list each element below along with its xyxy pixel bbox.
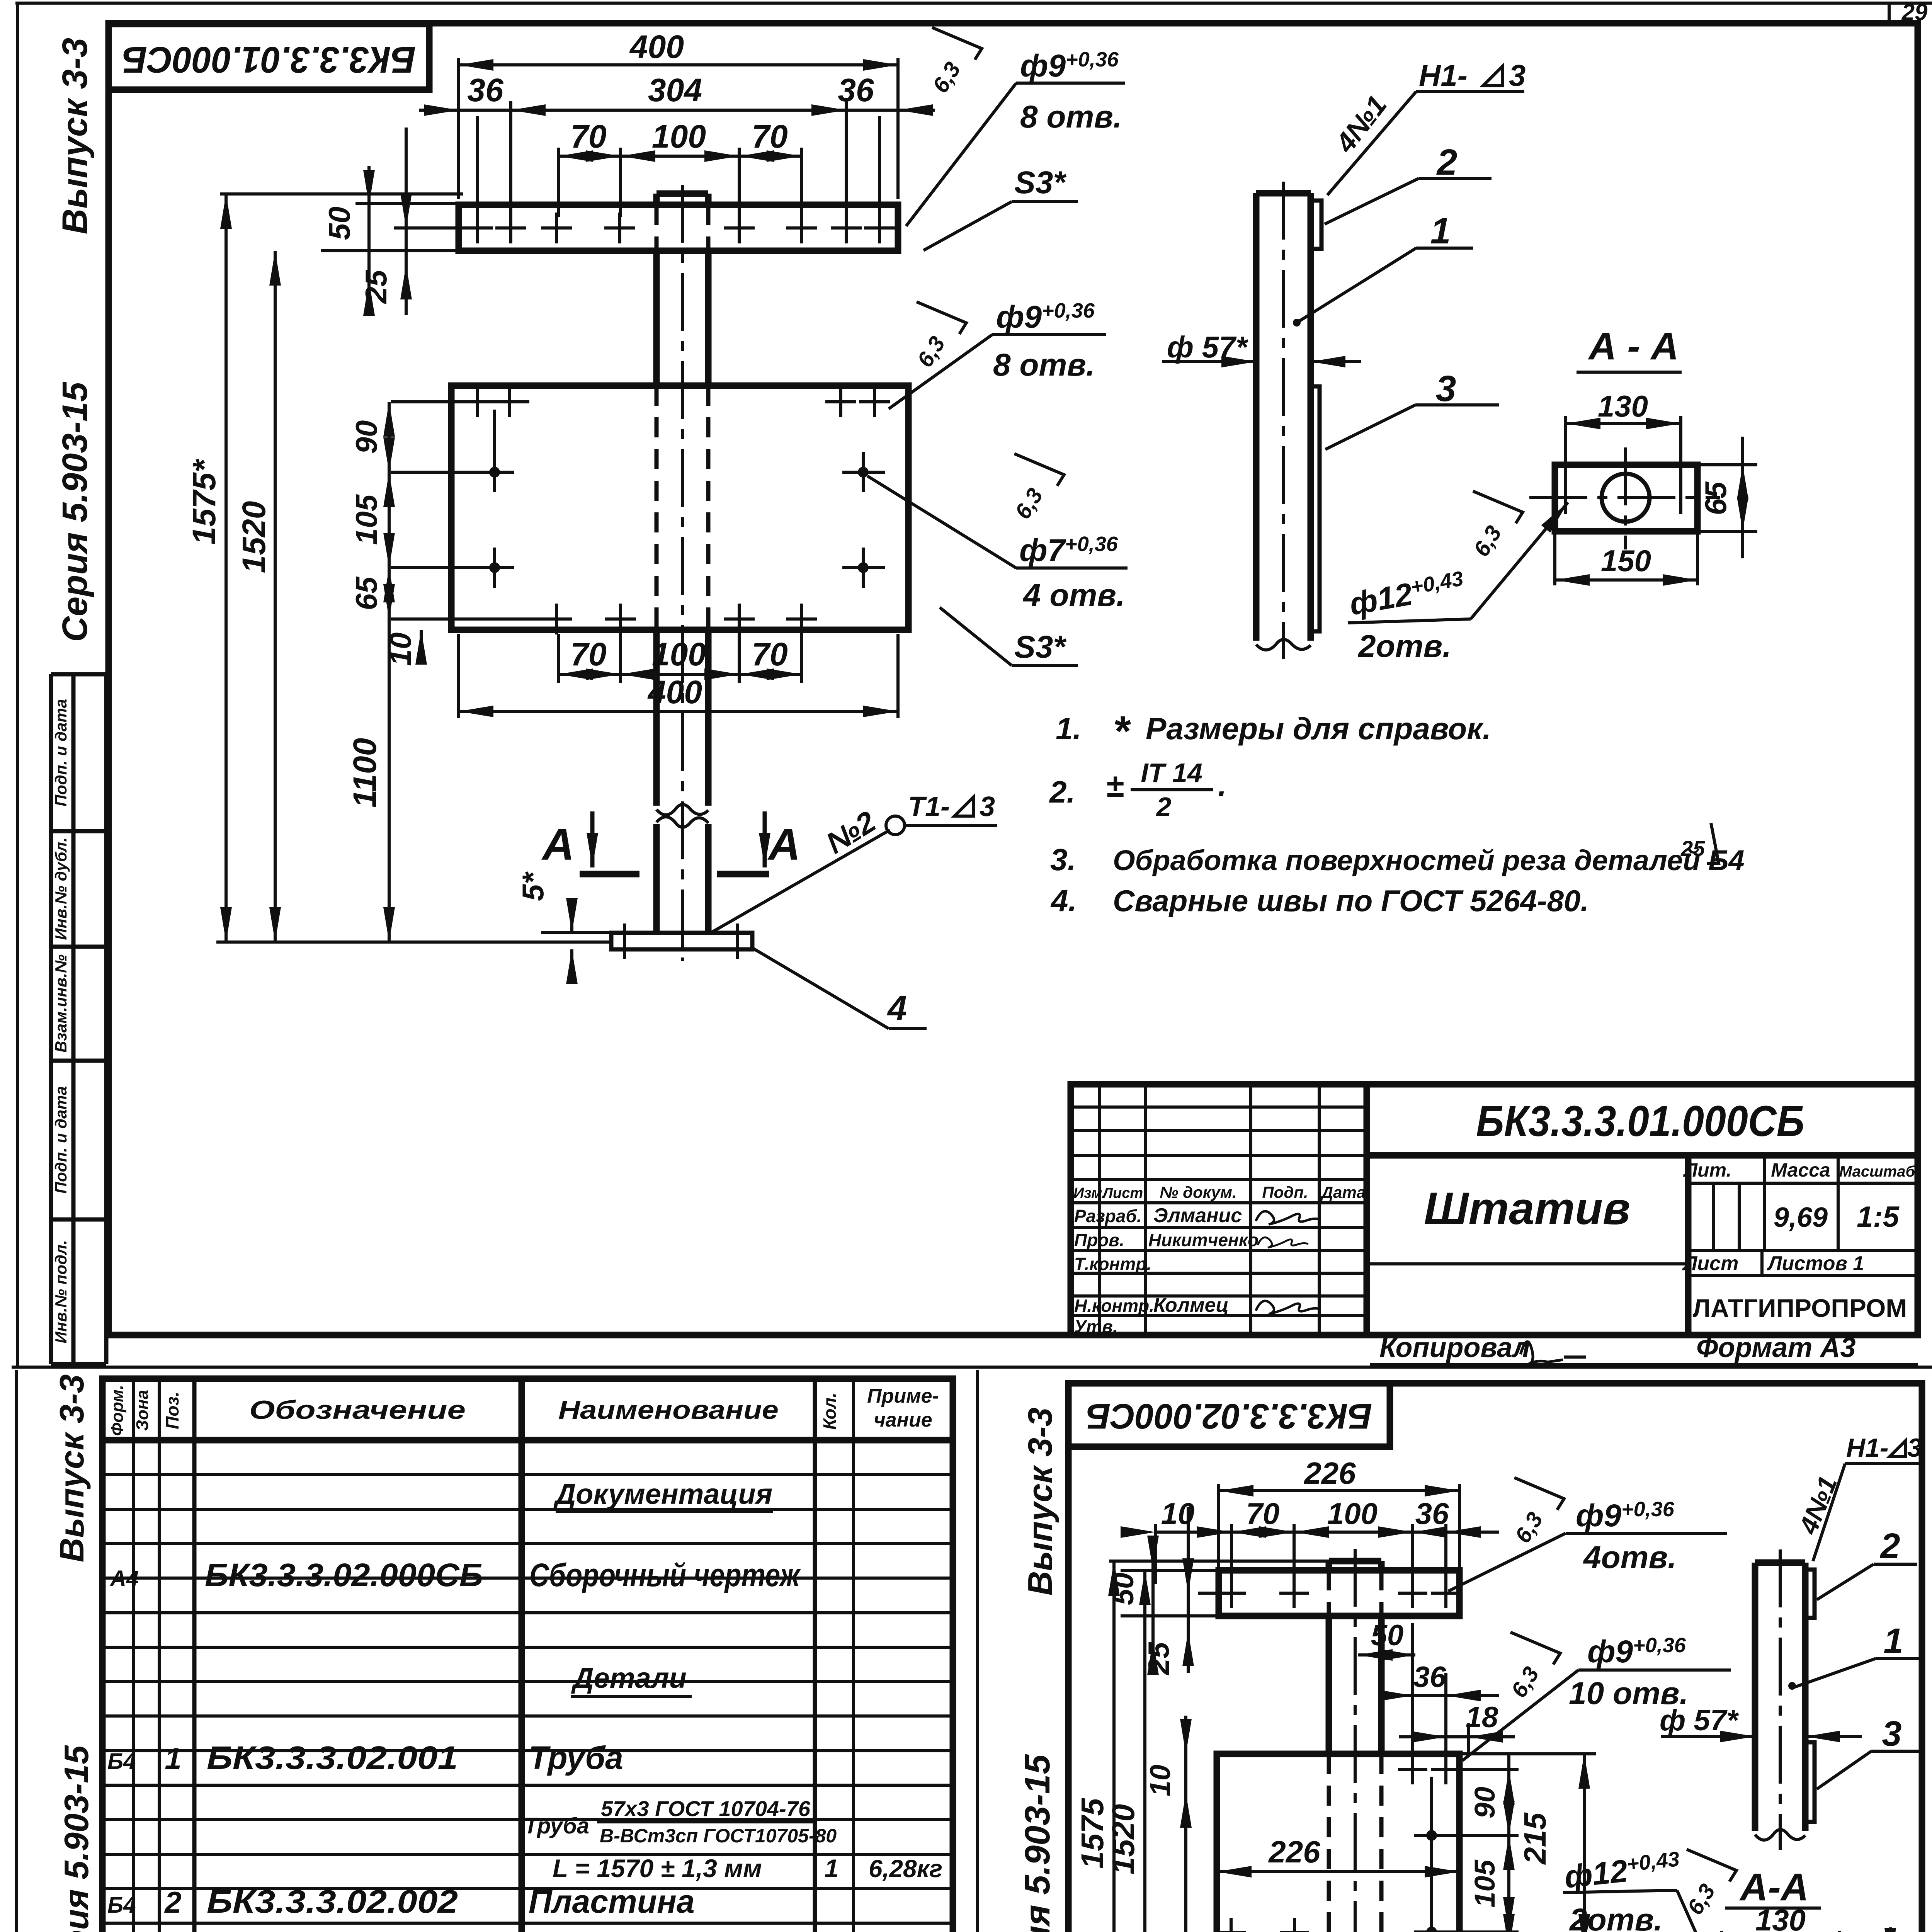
- svg-text:3.: 3.: [1050, 842, 1076, 877]
- svg-text:.: .: [1218, 768, 1226, 803]
- svg-text:1: 1: [825, 1854, 839, 1883]
- svg-text:50: 50: [322, 207, 356, 240]
- svg-text:Инв.№ дубл.: Инв.№ дубл.: [52, 837, 70, 940]
- svg-text:4.: 4.: [1050, 883, 1077, 918]
- svg-text:4 отв.: 4 отв.: [1022, 578, 1125, 613]
- svg-text:1575*: 1575*: [186, 459, 222, 545]
- svg-text:Серия 5.903-15: Серия 5.903-15: [55, 381, 95, 642]
- svg-text:70: 70: [752, 118, 787, 155]
- svg-text:Т.контр.: Т.контр.: [1074, 1254, 1151, 1274]
- svg-text:70: 70: [752, 636, 787, 672]
- svg-text:Подп. и дата: Подп. и дата: [52, 1086, 70, 1194]
- svg-text:3: 3: [1436, 368, 1456, 409]
- svg-text:1.: 1.: [1056, 711, 1082, 746]
- svg-text:Приме-: Приме-: [867, 1385, 939, 1407]
- svg-text:Пластина: Пластина: [529, 1883, 695, 1920]
- svg-text:3: 3: [1509, 58, 1526, 92]
- svg-text:Масса: Масса: [1771, 1159, 1830, 1181]
- svg-text:4отв.: 4отв.: [1583, 1540, 1677, 1575]
- svg-text:Подп. и дата: Подп. и дата: [52, 699, 70, 806]
- svg-text:2: 2: [1156, 792, 1172, 822]
- svg-text:25: 25: [1680, 836, 1705, 861]
- svg-text:Зона: Зона: [133, 1390, 152, 1431]
- svg-text:25: 25: [1143, 1641, 1175, 1675]
- svg-text:чание: чание: [874, 1409, 932, 1431]
- svg-text:Размеры для справок.: Размеры для справок.: [1146, 711, 1491, 746]
- svg-text:Лист: Лист: [1682, 1252, 1739, 1275]
- svg-text:S3*: S3*: [1014, 629, 1067, 665]
- svg-text:Серия 5.903-15: Серия 5.903-15: [57, 1745, 95, 1932]
- svg-text:90: 90: [1469, 1787, 1501, 1818]
- svg-text:Н1-: Н1-: [1846, 1433, 1889, 1463]
- svg-text:2отв.: 2отв.: [1569, 1902, 1663, 1932]
- svg-text:Подп.: Подп.: [1262, 1183, 1308, 1201]
- svg-text:БК3.3.3.01.000СБ: БК3.3.3.01.000СБ: [1476, 1097, 1804, 1145]
- svg-text:Колмец: Колмец: [1153, 1294, 1229, 1316]
- svg-text:1: 1: [1883, 1621, 1903, 1661]
- svg-text:100: 100: [652, 118, 706, 155]
- svg-text:4: 4: [887, 989, 907, 1028]
- svg-text:10: 10: [1144, 1765, 1176, 1796]
- svg-text:Утв.: Утв.: [1074, 1316, 1118, 1337]
- svg-text:Выпуск 3-3: Выпуск 3-3: [55, 38, 95, 235]
- svg-text:130: 130: [1755, 1903, 1806, 1932]
- svg-text:1520: 1520: [236, 501, 272, 573]
- svg-text:1100: 1100: [347, 738, 383, 808]
- svg-text:3: 3: [980, 791, 995, 822]
- svg-text:Б4: Б4: [107, 1749, 136, 1774]
- svg-text:Масштаб: Масштаб: [1839, 1163, 1916, 1180]
- svg-text:400: 400: [647, 674, 702, 710]
- svg-text:Обработка поверхностей реза де: Обработка поверхностей реза деталей Б4: [1113, 844, 1745, 876]
- svg-text:S3*: S3*: [1014, 165, 1067, 200]
- svg-text:Н.контр.: Н.контр.: [1074, 1296, 1154, 1316]
- svg-text:А: А: [541, 820, 574, 869]
- svg-text:105: 105: [349, 494, 383, 545]
- svg-text:29: 29: [1901, 0, 1928, 25]
- svg-text:Элманис: Элманис: [1153, 1204, 1242, 1227]
- svg-text:А-А: А-А: [1739, 1866, 1809, 1909]
- svg-text:105: 105: [1469, 1859, 1501, 1907]
- svg-text:Н1-: Н1-: [1419, 58, 1468, 92]
- svg-text:А4: А4: [109, 1566, 139, 1591]
- svg-text:36: 36: [838, 72, 874, 108]
- svg-text:50: 50: [1371, 1619, 1404, 1652]
- svg-text:2: 2: [164, 1885, 181, 1919]
- svg-text:L = 1570 ± 1,3 мм: L = 1570 ± 1,3 мм: [553, 1854, 762, 1883]
- svg-text:100: 100: [652, 636, 706, 672]
- svg-text:1: 1: [1430, 211, 1451, 252]
- svg-text:36: 36: [1413, 1661, 1446, 1694]
- svg-text:130: 130: [1598, 389, 1648, 423]
- svg-text:36: 36: [1415, 1497, 1449, 1531]
- svg-text:Разраб.: Разраб.: [1074, 1206, 1142, 1226]
- svg-text:8 отв.: 8 отв.: [1020, 99, 1122, 134]
- svg-text:IT 14: IT 14: [1141, 758, 1202, 788]
- svg-text:57х3 ГОСТ 10704-76: 57х3 ГОСТ 10704-76: [601, 1796, 811, 1821]
- svg-text:100: 100: [1327, 1497, 1378, 1531]
- svg-text:2: 2: [1879, 1526, 1900, 1566]
- svg-text:215: 215: [1518, 1812, 1552, 1865]
- svg-text:Листов 1: Листов 1: [1767, 1252, 1864, 1275]
- svg-text:70: 70: [1246, 1497, 1280, 1531]
- svg-text:Штатив: Штатив: [1424, 1183, 1630, 1234]
- svg-text:65: 65: [349, 576, 383, 610]
- svg-text:Выпуск 3-3: Выпуск 3-3: [1021, 1408, 1059, 1596]
- svg-text:Труба: Труба: [524, 1813, 589, 1838]
- svg-text:А: А: [767, 820, 800, 869]
- svg-text:Взам.инв.№: Взам.инв.№: [52, 954, 70, 1053]
- svg-text:±: ±: [1106, 767, 1124, 804]
- svg-text:1:5: 1:5: [1857, 1201, 1900, 1233]
- svg-text:Дата: Дата: [1320, 1183, 1366, 1201]
- svg-text:18: 18: [1466, 1701, 1498, 1734]
- svg-text:Документация: Документация: [553, 1478, 772, 1510]
- svg-text:Серия 5.903-15: Серия 5.903-15: [1018, 1754, 1057, 1932]
- svg-text:Копировал: Копировал: [1379, 1332, 1530, 1363]
- svg-text:2отв.: 2отв.: [1357, 629, 1451, 664]
- svg-text:70: 70: [570, 118, 606, 155]
- svg-text:№ докум.: № докум.: [1160, 1183, 1236, 1201]
- svg-text:*: *: [1113, 707, 1131, 755]
- svg-text:ЛАТГИПРОПРОМ: ЛАТГИПРОПРОМ: [1693, 1294, 1907, 1322]
- svg-text:БК3.3.3.02.002: БК3.3.3.02.002: [207, 1883, 458, 1920]
- svg-text:6,28кг: 6,28кг: [869, 1855, 942, 1883]
- svg-text:1: 1: [165, 1742, 181, 1776]
- svg-text:2: 2: [1436, 142, 1458, 183]
- svg-text:В-ВСт3сп ГОСТ10705-80: В-ВСт3сп ГОСТ10705-80: [600, 1825, 837, 1847]
- svg-text:Сборочный чертеж: Сборочный чертеж: [529, 1557, 801, 1593]
- svg-text:226: 226: [1268, 1835, 1320, 1869]
- svg-text:10: 10: [383, 633, 417, 666]
- svg-text:25: 25: [359, 269, 393, 304]
- svg-text:Изм.: Изм.: [1073, 1185, 1106, 1201]
- svg-text:1575: 1575: [1075, 1798, 1110, 1869]
- svg-text:3: 3: [1882, 1714, 1901, 1753]
- svg-text:304: 304: [648, 72, 702, 108]
- svg-text:Детали: Детали: [571, 1662, 687, 1694]
- svg-text:Кол.: Кол.: [820, 1393, 840, 1430]
- svg-text:Форм.: Форм.: [108, 1385, 127, 1436]
- svg-text:Формат А3: Формат А3: [1696, 1332, 1856, 1363]
- svg-text:400: 400: [629, 29, 684, 65]
- svg-text:9,69: 9,69: [1774, 1202, 1828, 1233]
- svg-text:150: 150: [1601, 544, 1651, 578]
- svg-text:3: 3: [1907, 1433, 1922, 1463]
- svg-text:Пров.: Пров.: [1074, 1230, 1124, 1250]
- svg-text:Лист: Лист: [1102, 1185, 1143, 1201]
- svg-text:Выпуск 3-3: Выпуск 3-3: [53, 1374, 91, 1563]
- svg-text:2.: 2.: [1049, 775, 1075, 809]
- svg-text:226: 226: [1303, 1456, 1356, 1490]
- svg-text:Никитченко: Никитченко: [1148, 1230, 1259, 1250]
- svg-text:Сварные швы по ГОСТ 5264-80.: Сварные швы по ГОСТ 5264-80.: [1113, 884, 1589, 918]
- svg-text:70: 70: [570, 636, 606, 672]
- svg-text:Б4: Б4: [107, 1893, 136, 1918]
- svg-text:Труба: Труба: [529, 1740, 623, 1776]
- svg-text:Лит.: Лит.: [1683, 1159, 1732, 1181]
- svg-text:Т1-: Т1-: [908, 791, 950, 822]
- svg-text:БК3.3.3.01.000СБ: БК3.3.3.01.000СБ: [122, 39, 416, 80]
- svg-text:А - А: А - А: [1587, 325, 1679, 368]
- svg-text:90: 90: [349, 420, 383, 454]
- svg-text:БК3.3.3.02.000СБ: БК3.3.3.02.000СБ: [1086, 1396, 1372, 1436]
- svg-text:Поз.: Поз.: [162, 1391, 182, 1429]
- svg-text:36: 36: [467, 72, 504, 108]
- svg-text:Обозначение: Обозначение: [249, 1395, 466, 1425]
- svg-text:65: 65: [1699, 481, 1733, 515]
- svg-text:1520: 1520: [1106, 1804, 1141, 1874]
- svg-text:БК3.3.3.02.001: БК3.3.3.02.001: [207, 1740, 458, 1776]
- svg-text:Наименование: Наименование: [558, 1395, 779, 1425]
- svg-text:5*: 5*: [516, 871, 550, 901]
- svg-text:БК3.3.3.02.000СБ: БК3.3.3.02.000СБ: [205, 1557, 483, 1593]
- svg-text:Инв.№ подл.: Инв.№ подл.: [52, 1240, 70, 1343]
- svg-text:8 отв.: 8 отв.: [993, 347, 1095, 383]
